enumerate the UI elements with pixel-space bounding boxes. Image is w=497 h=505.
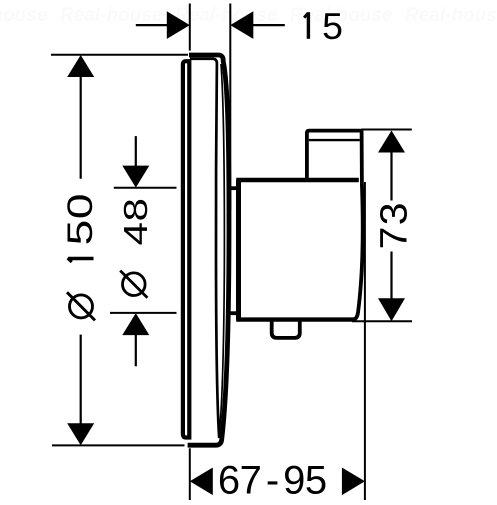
escutcheon plate inner rim line [190,59,219,438]
svg-text:0: 0 [60,193,99,219]
digit 1 (rotated) [68,257,93,260]
svg-text:Real-house: Real-house [405,5,497,26]
svg-text:Real-house: Real-house [60,5,163,26]
arrow 73 top [378,131,405,153]
svg-text:3: 3 [373,202,415,225]
dimension 15 left extension line [189,4,191,51]
dimension Ø150 line lower segment [80,335,82,424]
cap lip line [309,139,360,141]
arrow Ø150 top [67,55,94,77]
svg-text:7: 7 [373,227,415,250]
dimension Ø150 line upper segment [80,76,82,179]
escutcheon plate back second contour [220,64,225,431]
svg-text:5: 5 [322,5,343,47]
valve body outline [236,180,359,320]
diameter symbol [70,295,93,318]
arrow Ø48 bottom [122,313,149,335]
svg-text:8: 8 [118,198,155,221]
dimension 73 line upper segment [390,152,392,201]
sleeve bottom edge [227,311,241,315]
dimension 67-95 right extension line [364,182,366,500]
dimension 15 line left segment [136,24,167,26]
arrow 67-95 right [342,468,365,496]
arrow 67-95 left [190,468,213,496]
svg-text:4: 4 [118,222,155,245]
valve body right silhouette [352,131,362,320]
dimension 73 bottom extension line [352,320,412,322]
svg-text:7: 7 [240,459,262,501]
bottom tab [272,319,300,338]
svg-text:5: 5 [305,459,327,501]
stop ring cap on top [307,131,363,180]
label 15 [303,5,343,47]
dimension Ø150 bottom extension line [52,444,185,446]
arrow 15 left [167,11,190,39]
dimension Ø48 top extension line [114,187,177,189]
dimension Ø48 line upper segment [135,136,137,167]
dimension 15 right extension line [229,4,231,211]
valve body left edge (thicker) [236,180,241,320]
dimension Ø150 top extension line [51,54,188,56]
svg-text:Real-house: Real-house [0,5,48,26]
arrow Ø150 bottom [67,423,94,445]
dimension 73 line lower segment [390,252,392,300]
label 67-95 [218,459,327,503]
svg-text:6: 6 [218,459,240,501]
label 73 [373,202,415,249]
label Ø48 [118,198,155,298]
svg-text:9: 9 [283,459,305,501]
label Ø150 [60,193,99,320]
dimension 67-95 left extension line [189,448,191,500]
arrow Ø48 top [122,166,149,188]
sleeve top edge [227,186,241,190]
escutcheon front cover [183,61,189,437]
arrow 73 bottom [378,298,405,321]
dimension 15 line right segment [253,24,285,26]
diameter symbol [123,273,146,296]
dimension Ø48 line lower segment [135,335,137,366]
svg-text:5: 5 [60,220,99,246]
arrow 15 right [230,11,253,39]
svg-text:-: - [266,459,279,501]
dimension 73 top extension line [362,129,412,131]
escutcheon plate outer shell [188,55,229,445]
watermark [0,5,497,26]
dimension Ø48 bottom extension line [110,312,177,314]
